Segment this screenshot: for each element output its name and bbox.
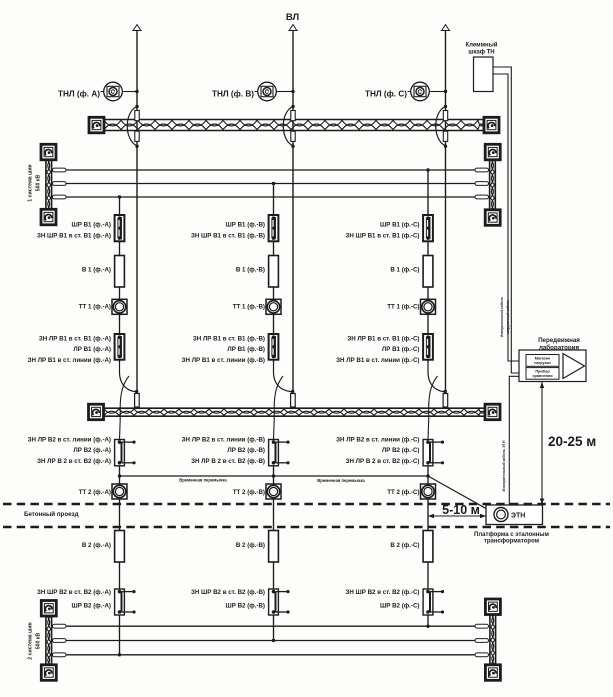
current transformer ТТ2 (ф.-С) xyxy=(421,484,436,499)
svg-text:Магазин: Магазин xyxy=(535,357,551,361)
bushing insulator on lower span, phase А xyxy=(135,394,140,408)
anchor: right dead-end of upper span xyxy=(484,117,499,133)
node: line joint above lower span, phase А xyxy=(135,390,138,393)
svg-text:ЗН ШР В2 в ст. В2 (ф.-В): ЗН ШР В2 в ст. В2 (ф.-В) xyxy=(191,589,265,596)
label В 1 (ф.-С) xyxy=(390,267,419,274)
node: bus-2 tap phase С xyxy=(426,625,429,628)
svg-text:ЗН ЛР В1 в ст. В1 (ф.-А): ЗН ЛР В1 в ст. В1 (ф.-А) xyxy=(39,336,111,343)
bushing insulator on lower span, phase С xyxy=(443,394,448,408)
wire: temporary diagonal lead from jumper to ЭТН xyxy=(428,476,494,513)
labels ЗН ЛР В1 в ст. В1 / ЛР В1 / ЗН ЛР В1 в ст. линии (ф.-А) xyxy=(28,336,111,365)
svg-text:В 2 (ф.-А): В 2 (ф.-А) xyxy=(82,542,111,549)
svg-text:ТНЛ (ф. В): ТНЛ (ф. В) xyxy=(212,90,254,99)
wire: bus-1 phase conductor 3 xyxy=(53,195,489,199)
label ТНЛ (ф. А) xyxy=(58,90,100,99)
label временная перемычка (A-B) xyxy=(179,478,227,483)
load box (Магазин нагрузки) xyxy=(526,355,559,367)
svg-text:ЗН ЛР В 2 в ст. В2 (ф.-В): ЗН ЛР В 2 в ст. В2 (ф.-В) xyxy=(191,458,265,465)
node: line joint above lower span, phase В xyxy=(291,390,294,393)
line disconnector ЛР В2 (ф.-В) with earthing knives xyxy=(269,440,290,466)
suspension insulators and jumper loop at upper span, phase А xyxy=(127,105,139,148)
anchor: top of left bus-1 bar xyxy=(41,144,56,160)
disconnector ШР В2 (ф.-С) with earthing knife xyxy=(423,589,444,615)
wire: second cable from cabinet to lab (comparison device) xyxy=(493,67,526,373)
wire: apparatus column lower section phase В xyxy=(273,420,276,641)
wire: overhead line phase А down-lead xyxy=(136,31,138,391)
line voltage transformer ТНЛ (ТНЛ (ф. В)) xyxy=(255,82,280,101)
svg-text:В 2 (ф.-В): В 2 (ф.-В) xyxy=(236,542,265,549)
node: temporary jumper tap phase А xyxy=(118,474,121,477)
net label ВЛ xyxy=(286,12,300,23)
node: bus-1 tap phase А xyxy=(118,195,121,198)
label ТТ 2 (ф.-В) xyxy=(233,489,265,496)
dimension 5-10 м from apparatus column to platform xyxy=(428,503,486,518)
busbar: 1st bus system, right vertical strain bar xyxy=(490,159,496,210)
svg-text:2 система шин: 2 система шин xyxy=(28,622,34,659)
label ТТ 2 (ф.-С) xyxy=(387,489,419,496)
anchor: top of left bus-2 bar xyxy=(41,601,56,617)
disconnector ШР В1 (ф.-В) with earthing knife ЗН ШР В1 xyxy=(269,215,279,241)
label 2 система шин 500 кВ (rotated) xyxy=(28,622,42,659)
suspension insulators and jumper loop at upper span, phase В xyxy=(283,105,295,148)
label cable (rotated) нагрузочный кабель xyxy=(506,300,510,335)
circuit breaker В1 (ф.-А) xyxy=(115,256,125,288)
label Платформа с эталонным трансформатором xyxy=(474,531,549,545)
svg-text:нагрузки: нагрузки xyxy=(534,361,551,365)
svg-text:5-10 м: 5-10 м xyxy=(442,503,480,517)
anchor: top of right bus-1 bar xyxy=(485,144,500,160)
svg-text:Клеммный: Клеммный xyxy=(466,42,498,49)
busbar: 2nd bus system, right vertical strain bar xyxy=(490,614,496,665)
line disconnector ЛР В2 (ф.-А) with earthing knives xyxy=(115,440,136,466)
label ТНЛ (ф. С) xyxy=(365,90,407,99)
svg-text:ЗН ШР В1 в ст. В1 (ф.-С): ЗН ШР В1 в ст. В1 (ф.-С) xyxy=(345,233,419,240)
node: temporary jumper tap phase С xyxy=(426,474,429,477)
current transformer ТТ1 (ф.-А) xyxy=(112,299,127,314)
wire: bus-1 phase conductor 1 xyxy=(53,168,489,172)
anchor: bottom of right bus-1 bar xyxy=(485,210,500,226)
svg-text:ТНЛ (ф. С): ТНЛ (ф. С) xyxy=(365,90,407,99)
wire: curved drop through lower span, phase А xyxy=(120,376,129,420)
svg-text:В 1 (ф.-А): В 1 (ф.-А) xyxy=(82,267,111,274)
svg-text:ЛР В1 (ф.-А): ЛР В1 (ф.-А) xyxy=(73,346,111,353)
road edge (dashed) upper xyxy=(3,503,610,506)
svg-text:ЗН ЛР В1 в ст. линии (ф.-А): ЗН ЛР В1 в ст. линии (ф.-А) xyxy=(28,357,111,364)
labels ЗН ШР В2 в ст. В2 / ШР В2 (ф.-С) xyxy=(345,589,419,610)
svg-text:сравнения: сравнения xyxy=(532,374,552,378)
dimension 20-25 м between laboratory and platform xyxy=(540,382,596,505)
label Передвижная лаборатория xyxy=(538,337,580,352)
svg-text:ТНЛ (ф. А): ТНЛ (ф. А) xyxy=(58,90,100,99)
busbar: line-side flexible span (lower) xyxy=(104,408,485,416)
circuit breaker В2 (ф.-В) xyxy=(269,531,279,563)
busbar: line-side flexible span (upper) xyxy=(104,120,484,131)
wire: bus-2 phase conductor 3 xyxy=(53,653,489,657)
svg-text:ШР В1 (ф.-А): ШР В1 (ф.-А) xyxy=(72,222,111,229)
circuit breaker В2 (ф.-А) xyxy=(115,531,125,563)
line arrow phase С xyxy=(441,25,451,31)
wire: bus-1 phase conductor 2 xyxy=(53,182,489,186)
wire: apparatus column upper section phase С xyxy=(427,170,429,362)
svg-text:ЛР В1 (ф.-С): ЛР В1 (ф.-С) xyxy=(382,346,420,353)
wire: curved drop through lower span, phase С xyxy=(429,376,438,420)
svg-text:нагрузочный кабель: нагрузочный кабель xyxy=(506,300,510,335)
labels ЗН ЛР В2 в ст. линии / ЛР В2 / ЗН ЛР В 2 в ст. В2 (ф.-В) xyxy=(182,437,265,466)
disconnector ШР В2 (ф.-А) with earthing knife xyxy=(115,589,136,615)
circuit breaker В2 (ф.-С) xyxy=(423,531,433,563)
road edge (dashed) lower xyxy=(3,526,610,529)
label В 2 (ф.-В) xyxy=(236,542,265,549)
label ТНЛ (ф. В) xyxy=(212,90,254,99)
label ТТ 1 (ф.-С) xyxy=(387,304,419,311)
svg-text:ШР В1 (ф.-В): ШР В1 (ф.-В) xyxy=(226,222,265,229)
anchor: bottom of right bus-2 bar xyxy=(485,665,500,681)
svg-text:500 кВ: 500 кВ xyxy=(36,175,42,192)
labels ЗН ЛР В1 в ст. В1 / ЛР В1 / ЗН ЛР В1 в ст. линии (ф.-С) xyxy=(336,336,419,365)
svg-text:ЗН ЛР В1 в ст. линии (ф.-В): ЗН ЛР В1 в ст. линии (ф.-В) xyxy=(182,357,265,364)
svg-text:шкаф ТН: шкаф ТН xyxy=(468,49,494,56)
node: temporary jumper tap phase В xyxy=(272,474,275,477)
label ШР В1 (ф.-В) / ЗН ШР В1 в ст. В1 (ф.-В) xyxy=(191,222,265,240)
label ТТ 1 (ф.-А) xyxy=(79,304,111,311)
mobile laboratory box xyxy=(519,350,586,382)
label Клеммный шкаф ТН xyxy=(466,42,498,56)
svg-text:ЛР В2 (ф.-В): ЛР В2 (ф.-В) xyxy=(227,447,265,454)
svg-text:Платформа с эталонным: Платформа с эталонным xyxy=(474,531,549,538)
node: line joint above lower span, phase С xyxy=(444,390,447,393)
svg-text:20-25 м: 20-25 м xyxy=(548,434,596,449)
disconnector ШР В1 (ф.-А) with earthing knife ЗН ШР В1 xyxy=(115,215,125,241)
line voltage transformer ТНЛ (ТНЛ (ф. А)) xyxy=(101,82,126,101)
svg-text:1 система шин: 1 система шин xyxy=(28,164,34,201)
wire ТНЛ tap to line phase С xyxy=(433,90,448,93)
svg-text:Измерительный кабель ЭТН: Измерительный кабель ЭТН xyxy=(502,440,506,491)
svg-text:ШР В2 (ф.-А): ШР В2 (ф.-А) xyxy=(72,603,111,610)
svg-text:ЛР В2 (ф.-С): ЛР В2 (ф.-С) xyxy=(382,447,420,454)
svg-text:ЗН ШР В2 в ст. В2 (ф.-С): ЗН ШР В2 в ст. В2 (ф.-С) xyxy=(345,589,419,596)
svg-text:500 кВ: 500 кВ xyxy=(36,633,42,650)
circuit breaker В1 (ф.-С) xyxy=(423,256,433,288)
svg-text:Прибор: Прибор xyxy=(535,370,550,374)
wire: measuring cable from cabinet to lab (load box) xyxy=(493,74,526,361)
svg-text:Временная перемычка: Временная перемычка xyxy=(317,478,365,483)
svg-text:ТТ 1 (ф.-В): ТТ 1 (ф.-В) xyxy=(233,304,265,311)
anchor: bottom of left bus-2 bar xyxy=(41,665,56,681)
svg-text:ШР В2 (ф.-С): ШР В2 (ф.-С) xyxy=(380,603,419,610)
labels ЗН ШР В2 в ст. В2 / ШР В2 (ф.-А) xyxy=(37,589,111,610)
label Бетонный проезд xyxy=(24,511,79,518)
node: bus-1 tap phase С xyxy=(426,168,429,171)
label В 1 (ф.-В) xyxy=(236,267,265,274)
wire ТНЛ tap to line phase А xyxy=(126,90,139,93)
busbar: 2nd bus system 500 kV, left vertical strain bar xyxy=(46,616,52,665)
wire: bus-2 phase conductor 2 xyxy=(53,639,489,643)
svg-text:ЗН ЛР В1 в ст. В1 (ф.-В): ЗН ЛР В1 в ст. В1 (ф.-В) xyxy=(193,336,265,343)
line disconnector ЛР В2 (ф.-С) with earthing knives xyxy=(423,440,444,466)
label ТТ 2 (ф.-А) xyxy=(79,489,111,496)
svg-text:Временная перемычка: Временная перемычка xyxy=(179,478,227,483)
wire: overhead line phase В down-lead xyxy=(292,31,294,391)
platform box with ЭТН xyxy=(486,505,543,525)
anchor: left dead-end of upper span xyxy=(89,117,104,133)
label ШР В1 (ф.-А) / ЗН ШР В1 в ст. В1 (ф.-А) xyxy=(37,222,111,240)
labels ЗН ШР В2 в ст. В2 / ШР В2 (ф.-В) xyxy=(191,589,265,610)
line disconnector ЛР В1 (ф.-С) with earthing knives xyxy=(423,334,433,360)
svg-text:ЗН ЛР В2 в ст. линии (ф.-С): ЗН ЛР В2 в ст. линии (ф.-С) xyxy=(336,437,419,444)
label временная перемычка (B-C) xyxy=(317,478,365,483)
anchor: right dead-end of lower span xyxy=(485,404,500,420)
svg-text:В 2 (ф.-С): В 2 (ф.-С) xyxy=(390,542,419,549)
label ШР В1 (ф.-С) / ЗН ШР В1 в ст. В1 (ф.-С) xyxy=(345,222,419,240)
anchor: top of right bus-2 bar xyxy=(485,599,500,615)
svg-text:ТТ 2 (ф.-В): ТТ 2 (ф.-В) xyxy=(233,489,265,496)
line arrow phase А xyxy=(132,25,142,31)
label В 2 (ф.-А) xyxy=(82,542,111,549)
current transformer ТТ1 (ф.-В) xyxy=(266,299,281,314)
label В 2 (ф.-С) xyxy=(390,542,419,549)
disconnector ШР В2 (ф.-В) with earthing knife xyxy=(269,589,290,615)
svg-text:ТТ 1 (ф.-А): ТТ 1 (ф.-А) xyxy=(79,304,111,311)
svg-text:ЗН ЛР В1 в ст. линии (ф.-С): ЗН ЛР В1 в ст. линии (ф.-С) xyxy=(336,357,419,364)
terminal cabinet box шкаф ТН xyxy=(474,57,494,92)
labels ЗН ЛР В1 в ст. В1 / ЛР В1 / ЗН ЛР В1 в ст. линии (ф.-В) xyxy=(182,336,265,365)
label Измерительный кабель ЭТН (rotated) xyxy=(502,440,506,491)
amplifier triangle in laboratory xyxy=(563,354,585,379)
node: bus-2 tap phase А xyxy=(118,653,121,656)
svg-text:трансформатором: трансформатором xyxy=(484,538,540,545)
busbar: 1st bus system 500 kV, left vertical strain bar xyxy=(46,159,52,210)
svg-text:ЗН ЛР В 2 в ст. В2 (ф.-А): ЗН ЛР В 2 в ст. В2 (ф.-А) xyxy=(37,458,111,465)
svg-text:Измерительный кабель: Измерительный кабель xyxy=(500,297,504,337)
wire: apparatus column lower section phase А xyxy=(119,420,122,655)
wire: temporary jumper (временная перемычка) across phases xyxy=(120,475,429,477)
suspension insulators and jumper loop at upper span, phase С xyxy=(436,105,448,148)
wire: curved drop from ЛР В1 to line joint, phase А xyxy=(120,360,136,392)
svg-text:Бетонный проезд: Бетонный проезд xyxy=(24,511,79,518)
current transformer ТТ1 (ф.-С) xyxy=(421,299,436,314)
svg-text:ЛР В2 (ф.-А): ЛР В2 (ф.-А) xyxy=(73,447,111,454)
svg-text:ШР В2 (ф.-В): ШР В2 (ф.-В) xyxy=(226,603,265,610)
wire: apparatus column upper section phase А xyxy=(119,197,121,362)
wire: curved drop from ЛР В1 to line joint, phase С xyxy=(428,360,444,392)
line disconnector ЛР В1 (ф.-В) with earthing knives xyxy=(269,334,279,360)
label В 1 (ф.-А) xyxy=(82,267,111,274)
wire: measuring cable ЭТН from laboratory down to platform xyxy=(509,376,519,505)
anchor: bottom of left bus-1 bar xyxy=(41,209,56,225)
svg-text:ЗН ШР В1 в ст. В1 (ф.-В): ЗН ШР В1 в ст. В1 (ф.-В) xyxy=(191,233,265,240)
label ТТ 1 (ф.-В) xyxy=(233,304,265,311)
svg-text:ЛР В1 (ф.-В): ЛР В1 (ф.-В) xyxy=(227,346,265,353)
line arrow phase В xyxy=(288,25,298,31)
svg-text:ЗН ШР В1 в ст. В1 (ф.-А): ЗН ШР В1 в ст. В1 (ф.-А) xyxy=(37,233,111,240)
labels ЗН ЛР В2 в ст. линии / ЛР В2 / ЗН ЛР В 2 в ст. В2 (ф.-С) xyxy=(336,437,419,466)
labels ЗН ЛР В2 в ст. линии / ЛР В2 / ЗН ЛР В 2 в ст. В2 (ф.-А) xyxy=(28,437,111,466)
node: bus-1 tap phase В xyxy=(272,182,275,185)
wire ТНЛ tap to line phase В xyxy=(280,90,295,93)
anchor: left dead-end of lower span xyxy=(89,404,104,420)
svg-text:ВЛ: ВЛ xyxy=(286,12,300,23)
svg-text:В 1 (ф.-В): В 1 (ф.-В) xyxy=(236,267,265,274)
wire: overhead line phase С down-lead xyxy=(445,31,447,391)
label cable (rotated) Измерительный кабель xyxy=(500,297,504,337)
svg-text:ТТ 1 (ф.-С): ТТ 1 (ф.-С) xyxy=(387,304,419,311)
svg-text:ЗН ЛР В2 в ст. линии (ф.-В): ЗН ЛР В2 в ст. линии (ф.-В) xyxy=(182,437,265,444)
wire: apparatus column lower section phase С xyxy=(427,420,430,627)
svg-text:ЗН ЛР В2 в ст. линии (ф.-А): ЗН ЛР В2 в ст. линии (ф.-А) xyxy=(28,437,111,444)
wire: curved drop from ЛР В1 to line joint, phase В xyxy=(274,360,292,392)
bushing insulator on lower span, phase В xyxy=(291,394,296,408)
svg-text:ЗН ШР В2 в ст. В2 (ф.-А): ЗН ШР В2 в ст. В2 (ф.-А) xyxy=(37,589,111,596)
label 1 система шин 500 кВ (rotated) xyxy=(28,164,42,201)
disconnector ШР В1 (ф.-С) with earthing knife ЗН ШР В1 xyxy=(423,215,433,241)
svg-text:ЗН ЛР В1 в ст. В1 (ф.-С): ЗН ЛР В1 в ст. В1 (ф.-С) xyxy=(347,336,419,343)
line voltage transformer ТНЛ (ТНЛ (ф. С)) xyxy=(408,82,433,101)
comparison device (Прибор сравнения) xyxy=(526,368,559,380)
svg-text:Передвижная: Передвижная xyxy=(538,337,580,344)
wire: bus-2 phase conductor 1 xyxy=(53,624,489,628)
current transformer ТТ2 (ф.-А) xyxy=(112,484,127,499)
current transformer ТТ2 (ф.-В) xyxy=(266,484,281,499)
circuit breaker В1 (ф.-В) xyxy=(269,256,279,288)
line disconnector ЛР В1 (ф.-А) with earthing knives xyxy=(115,334,125,360)
svg-text:ЗН ЛР В 2 в ст. В2 (ф.-С): ЗН ЛР В 2 в ст. В2 (ф.-С) xyxy=(346,458,420,465)
wire: curved drop through lower span, phase В xyxy=(274,376,283,420)
node: bus-2 tap phase В xyxy=(272,639,275,642)
svg-text:ЭТН: ЭТН xyxy=(511,513,525,520)
wire: apparatus column upper section phase В xyxy=(273,184,275,363)
svg-text:В 1 (ф.-С): В 1 (ф.-С) xyxy=(390,267,419,274)
svg-text:ТТ 2 (ф.-А): ТТ 2 (ф.-А) xyxy=(79,489,111,496)
svg-text:ШР В1 (ф.-С): ШР В1 (ф.-С) xyxy=(380,222,419,229)
svg-text:ТТ 2 (ф.-С): ТТ 2 (ф.-С) xyxy=(387,489,419,496)
